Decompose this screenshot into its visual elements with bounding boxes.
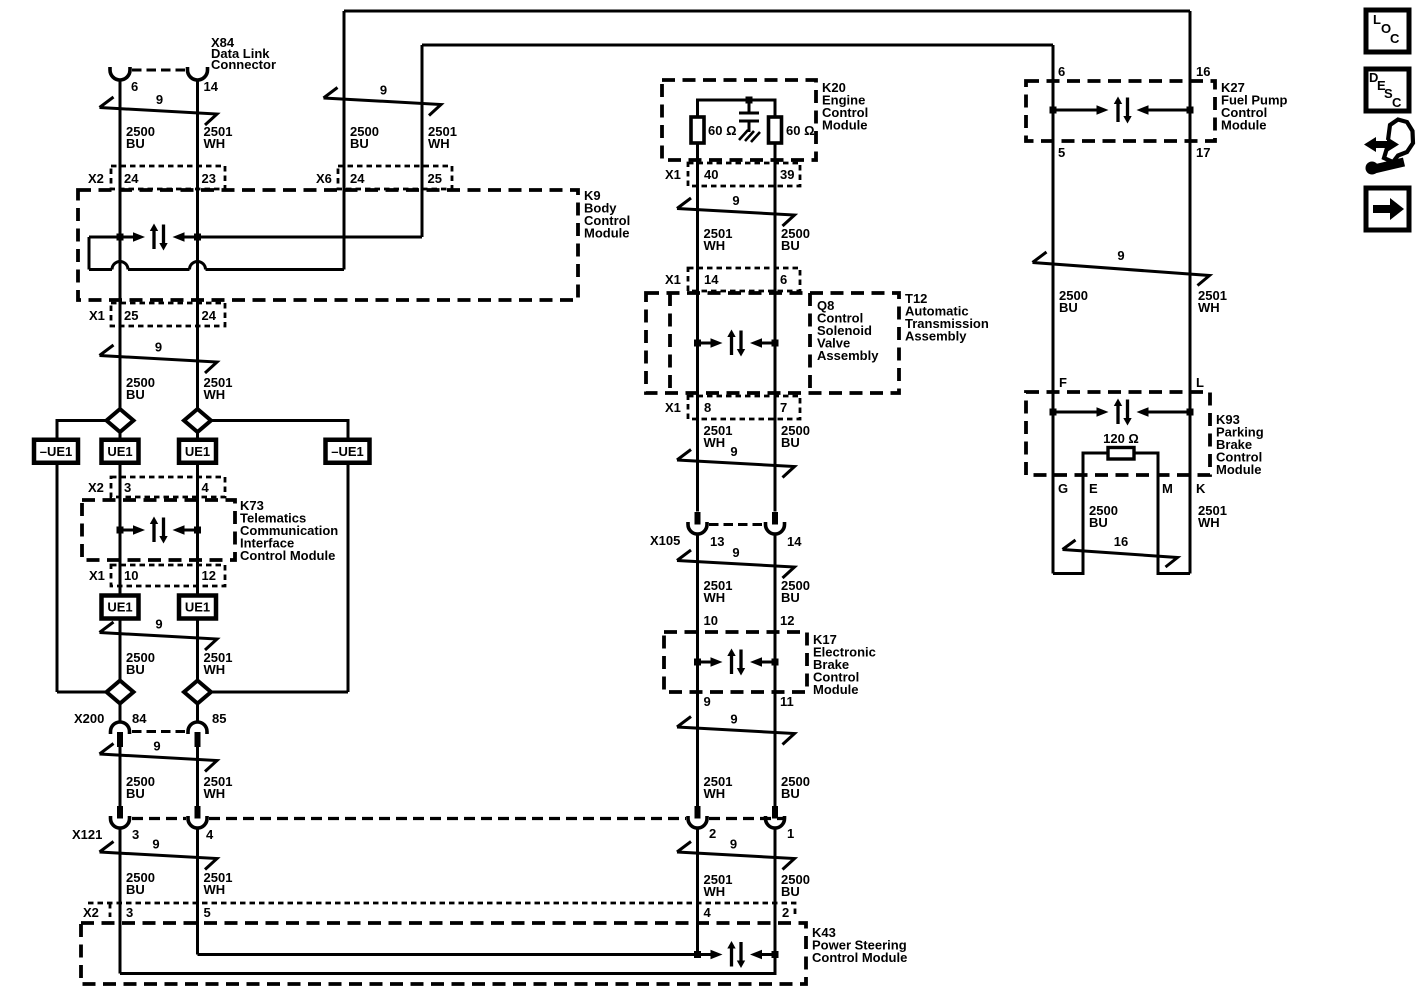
svg-text:120 Ω: 120 Ω <box>1103 431 1139 446</box>
svg-text:BU: BU <box>126 387 145 402</box>
connector X84 socket B <box>188 67 208 80</box>
svg-text:40: 40 <box>704 167 718 182</box>
option box UE1 on A upper <box>102 440 139 463</box>
svg-text:X200: X200 <box>74 711 104 726</box>
resistor 60 ohm right in K20 <box>769 117 782 143</box>
svg-text:BU: BU <box>781 590 800 605</box>
svg-text:9: 9 <box>730 712 737 727</box>
svg-text:WH: WH <box>1198 515 1220 530</box>
connector X121 half A <box>111 806 130 828</box>
svg-text:13: 13 <box>710 534 724 549</box>
resistor 60 ohm left in K20 <box>691 117 704 143</box>
connector strip X1 of K9 <box>111 303 225 326</box>
node symbol in K73 <box>117 517 202 544</box>
icon right arrow box <box>1366 188 1409 230</box>
svg-text:6: 6 <box>131 79 138 94</box>
wire K93 resistor loop left <box>1053 453 1108 574</box>
hop over wire B <box>190 262 206 270</box>
option box -UE1 right <box>326 440 370 463</box>
svg-text:60 Ω: 60 Ω <box>786 123 815 138</box>
svg-text:WH: WH <box>428 136 450 151</box>
node symbol in Q8/T12 <box>694 330 779 357</box>
svg-text:5: 5 <box>1058 145 1065 160</box>
icon LOC box <box>1366 10 1409 52</box>
svg-text:X1: X1 <box>665 400 681 415</box>
wire top bus 1 (2501 WH to K27 pin 16) <box>344 10 1190 13</box>
twisted pair 9 below K9 <box>100 345 218 373</box>
svg-text:24: 24 <box>124 171 139 186</box>
connector strip X2 of K43 <box>88 903 795 918</box>
connector X105 half E <box>688 512 707 534</box>
svg-text:BU: BU <box>126 882 145 897</box>
svg-text:8: 8 <box>704 400 711 415</box>
svg-text:X6: X6 <box>316 171 332 186</box>
connector X84 socket A <box>110 67 130 80</box>
module K17 box <box>664 632 807 692</box>
splice diamond upper B <box>184 409 211 432</box>
svg-text:60 Ω: 60 Ω <box>708 123 737 138</box>
wire D (X6 pin 25 riser) <box>421 45 424 237</box>
svg-text:BU: BU <box>1059 300 1078 315</box>
connector X84 dashed link <box>132 69 186 72</box>
node symbol in K43 <box>694 941 779 968</box>
connector X200 half B <box>188 722 207 747</box>
twisted pair 9 below X84 <box>100 97 218 125</box>
svg-text:WH: WH <box>204 662 226 677</box>
svg-text:X105: X105 <box>650 533 680 548</box>
svg-text:F: F <box>1059 375 1067 390</box>
icon double arrow with tool <box>1364 120 1413 175</box>
twisted pair 16 in K93 loop <box>1063 540 1178 567</box>
svg-text:G: G <box>1058 481 1068 496</box>
svg-text:14: 14 <box>787 534 802 549</box>
svg-text:BU: BU <box>126 662 145 677</box>
svg-text:24: 24 <box>350 171 365 186</box>
svg-text:11: 11 <box>780 694 794 709</box>
svg-text:X2: X2 <box>88 480 104 495</box>
svg-text:9: 9 <box>732 545 739 560</box>
assembly Q8 inner box right edge <box>808 293 812 393</box>
svg-text:Module: Module <box>1216 462 1262 477</box>
svg-text:E: E <box>1089 481 1098 496</box>
twisted pair 9 below X200 <box>100 744 218 772</box>
svg-text:9: 9 <box>155 617 162 632</box>
connector X200 half A <box>111 722 130 747</box>
wire K9 internal lower with hops to wire C <box>89 268 344 271</box>
connector strip X2 of K73 <box>111 477 225 497</box>
svg-text:10: 10 <box>124 568 138 583</box>
connector strip X2 of K9 <box>111 166 225 189</box>
wire 2501 WH vertical B (X84 pin 14 branch) <box>196 80 199 723</box>
option box -UE1 left <box>34 440 78 463</box>
svg-text:WH: WH <box>704 884 726 899</box>
resistor 120 ohm in K93 <box>1108 448 1134 460</box>
svg-text:3: 3 <box>126 905 133 920</box>
svg-text:9: 9 <box>732 193 739 208</box>
svg-text:Module: Module <box>813 682 859 697</box>
twisted pair 9 below X121 <box>100 842 218 870</box>
svg-text:9: 9 <box>152 837 159 852</box>
svg-text:24: 24 <box>202 308 217 323</box>
svg-text:WH: WH <box>204 136 226 151</box>
svg-text:84: 84 <box>132 711 147 726</box>
svg-text:2: 2 <box>709 826 716 841</box>
wire branch right (-UE1 leg) <box>211 421 348 693</box>
wire top bus 2 (2500 BU to K27 pin 6) <box>422 44 1053 47</box>
svg-text:WH: WH <box>204 882 226 897</box>
connector X121 dashed link <box>132 817 786 820</box>
svg-text:L: L <box>1373 12 1381 27</box>
svg-text:2: 2 <box>782 905 789 920</box>
svg-text:BU: BU <box>781 884 800 899</box>
svg-text:5: 5 <box>204 905 211 920</box>
svg-text:16: 16 <box>1196 64 1210 79</box>
svg-text:WH: WH <box>704 590 726 605</box>
twisted pair 9 below K27 <box>1033 252 1210 286</box>
module K73 box <box>82 500 235 560</box>
node symbol in K27 <box>1050 97 1194 124</box>
svg-text:6: 6 <box>1058 64 1065 79</box>
svg-text:3: 3 <box>124 480 131 495</box>
svg-text:X1: X1 <box>665 272 681 287</box>
svg-text:BU: BU <box>126 786 145 801</box>
svg-text:X1: X1 <box>665 167 681 182</box>
node symbol in K93 <box>1050 399 1194 426</box>
wire 2500 BU middle F <box>774 143 777 974</box>
connector strip X6 of K9 <box>338 166 452 189</box>
svg-text:39: 39 <box>780 167 794 182</box>
svg-text:BU: BU <box>781 435 800 450</box>
twisted pair 9 below lower UE1 <box>100 622 218 650</box>
connector strip X1 of Q8 top <box>688 268 800 291</box>
svg-text:BU: BU <box>1089 515 1108 530</box>
splice diamond upper A <box>107 409 134 432</box>
assembly Q8 inner box left edge <box>668 293 672 393</box>
svg-text:BU: BU <box>126 136 145 151</box>
svg-text:6: 6 <box>780 272 787 287</box>
wire 2500 BU A lower <box>119 747 122 974</box>
connector pins 2/1 half E <box>688 806 707 828</box>
svg-text:BU: BU <box>781 786 800 801</box>
svg-text:9: 9 <box>153 739 160 754</box>
module K43 box <box>81 923 806 984</box>
connector X105 half F <box>766 512 785 534</box>
svg-text:WH: WH <box>704 786 726 801</box>
svg-text:WH: WH <box>204 786 226 801</box>
svg-text:M: M <box>1162 481 1173 496</box>
connector strip X1 of K73 <box>111 565 225 586</box>
svg-text:Assembly: Assembly <box>817 348 879 363</box>
wire K43 upper run from B <box>198 953 698 956</box>
svg-text:16: 16 <box>1114 534 1128 549</box>
connector X121 half B <box>188 806 207 828</box>
hop over wire A <box>112 262 128 270</box>
svg-text:X1: X1 <box>89 568 105 583</box>
wire 2501 WH B lower <box>196 747 199 955</box>
svg-text:WH: WH <box>1198 300 1220 315</box>
svg-text:X2: X2 <box>83 905 99 920</box>
svg-text:WH: WH <box>704 435 726 450</box>
capacitor to ground in K20 <box>739 100 759 132</box>
twisted pair 9 below K17 <box>677 717 795 745</box>
svg-text:17: 17 <box>1196 145 1210 160</box>
twisted pair 9 below X105 <box>677 550 795 578</box>
wire 2501 WH middle E <box>696 143 699 955</box>
svg-text:X2: X2 <box>88 171 104 186</box>
module K27 box <box>1026 81 1215 141</box>
module K20 box <box>662 80 816 160</box>
chassis ground hatch in K20 <box>739 130 760 142</box>
svg-text:4: 4 <box>202 480 210 495</box>
wire 2500 BU vertical A (X84 pin 6 branch) <box>119 80 122 723</box>
svg-text:WH: WH <box>204 387 226 402</box>
svg-text:Assembly: Assembly <box>905 329 967 344</box>
svg-text:C: C <box>1390 31 1400 46</box>
svg-text:Connector: Connector <box>211 57 276 72</box>
option box UE1 on A lower <box>102 596 139 619</box>
junction dot K20 top center <box>746 97 753 104</box>
svg-text:1: 1 <box>787 826 794 841</box>
svg-text:10: 10 <box>704 613 718 628</box>
svg-text:9: 9 <box>730 837 737 852</box>
splice diamond lower A <box>107 681 134 704</box>
svg-text:85: 85 <box>212 711 226 726</box>
connector strip X1 of Q8 bottom <box>688 396 800 419</box>
svg-text:9: 9 <box>730 444 737 459</box>
svg-text:WH: WH <box>704 238 726 253</box>
svg-text:X121: X121 <box>72 827 102 842</box>
option box UE1 on B upper <box>179 440 216 463</box>
svg-text:9: 9 <box>380 83 387 98</box>
svg-text:9: 9 <box>156 92 163 107</box>
module K93 box <box>1026 392 1210 475</box>
icon DESC box <box>1366 69 1409 111</box>
svg-text:7: 7 <box>780 400 787 415</box>
wire 2501 WH right H <box>1189 11 1192 574</box>
connector X200 dashed link <box>132 730 186 733</box>
wire K9 internal upper (node line to wire D) <box>89 236 422 239</box>
twisted pair 9 below pins 2/1 <box>677 842 795 870</box>
svg-text:C: C <box>1392 95 1402 110</box>
svg-text:25: 25 <box>428 171 442 186</box>
svg-text:14: 14 <box>704 272 719 287</box>
svg-text:Module: Module <box>584 226 630 241</box>
svg-text:BU: BU <box>781 238 800 253</box>
twisted pair 9 on X6 risers <box>324 88 442 116</box>
svg-text:K: K <box>1196 481 1206 496</box>
svg-text:9: 9 <box>704 694 711 709</box>
option box UE1 on B lower <box>179 596 216 619</box>
wire K20 top link <box>698 100 776 117</box>
wire 2500 BU right G <box>1052 45 1055 574</box>
svg-text:Module: Module <box>1221 118 1267 133</box>
svg-text:Module: Module <box>822 118 868 133</box>
svg-text:4: 4 <box>206 827 214 842</box>
twisted pair 9 below Q8 <box>677 450 795 478</box>
svg-text:BU: BU <box>350 136 369 151</box>
svg-text:12: 12 <box>780 613 794 628</box>
connector X105 dashed link <box>709 523 764 526</box>
svg-text:Control Module: Control Module <box>240 548 335 563</box>
svg-text:9: 9 <box>1117 248 1124 263</box>
svg-text:L: L <box>1196 375 1204 390</box>
connector strip X1 of K20 <box>688 163 800 186</box>
node symbol in K9 <box>117 224 202 251</box>
svg-text:4: 4 <box>704 905 712 920</box>
connector pins 2/1 half F <box>766 806 785 828</box>
module K9 box <box>78 190 578 300</box>
node symbol in K17 <box>694 649 779 676</box>
splice diamond lower B <box>184 681 211 704</box>
wire K9 U-turn <box>88 237 91 270</box>
wire K43 lower run from A <box>120 955 775 974</box>
wire branch left (-UE1 leg) <box>57 421 107 693</box>
wire C (X6 pin 24 riser) <box>343 11 346 270</box>
svg-text:Control Module: Control Module <box>812 950 907 965</box>
wire K93 resistor loop right <box>1134 453 1190 574</box>
twisted pair 9 below K20 <box>677 198 795 226</box>
svg-text:X1: X1 <box>89 308 105 323</box>
svg-text:14: 14 <box>204 79 219 94</box>
svg-text:25: 25 <box>124 308 138 323</box>
svg-text:3: 3 <box>132 827 139 842</box>
module T12 outer box <box>646 293 899 393</box>
svg-text:23: 23 <box>202 171 216 186</box>
svg-text:12: 12 <box>202 568 216 583</box>
svg-text:9: 9 <box>155 340 162 355</box>
